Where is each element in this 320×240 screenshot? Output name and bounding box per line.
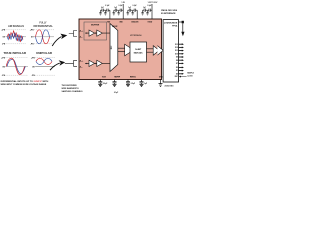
svg-text:DIFFERENTIAL: DIFFERENTIAL	[34, 25, 54, 28]
svg-text:DIFFERENTIAL INPUTS UP TO 2.8V: DIFFERENTIAL INPUTS UP TO 2.8VP-P WITH	[1, 80, 49, 83]
output pin D1	[176, 70, 184, 73]
MUX	[110, 24, 118, 72]
stub to node square	[179, 21, 182, 23]
swoosh arrow A2	[50, 63, 60, 70]
svg-text:0.1µF: 0.1µF	[147, 5, 151, 7]
output pin D0	[176, 73, 184, 76]
wire ch2 through buffers	[85, 62, 110, 64]
output pin D13	[175, 43, 184, 46]
plot P4 blue sine	[36, 58, 52, 64]
svg-text:-FS: -FS	[2, 44, 6, 46]
svg-text:FULLY: FULLY	[39, 23, 47, 25]
wire input fork channel 2	[65, 60, 77, 66]
interface box	[163, 20, 178, 82]
amp A1a	[89, 30, 95, 36]
svg-text:I/O INTERFACE: I/O INTERFACE	[161, 12, 176, 15]
svg-text:1.8V: 1.8V	[122, 2, 126, 4]
svg-text:2.2µF: 2.2µF	[131, 83, 135, 85]
bottom cap C8 REFLN	[140, 80, 148, 87]
input pin ENC (sample clock)	[175, 76, 187, 79]
svg-text:-FS: -FS	[31, 75, 35, 77]
bottom cap C5 VCM	[98, 80, 107, 87]
plot P2 grid lines	[34, 30, 54, 44]
amp A2a	[89, 60, 95, 66]
svg-text:BUFFER: BUFFER	[91, 25, 100, 27]
plot P2 red sine	[36, 30, 50, 44]
buffer box channel 1	[84, 22, 107, 40]
plot P3 red sine	[6, 58, 24, 74]
amp A1b	[97, 30, 103, 36]
svg-text:+FS: +FS	[31, 58, 35, 60]
svg-text:TRUE BIPOLAR: TRUE BIPOLAR	[4, 52, 27, 55]
plot P1 axis labels	[1, 30, 5, 46]
svg-text:0.1µF: 0.1µF	[105, 5, 109, 7]
svg-text:0V: 0V	[31, 37, 34, 39]
plot P2 axis labels	[30, 30, 34, 46]
plot P3 blue sine	[7, 59, 25, 73]
output pin D10	[175, 53, 184, 56]
wire ch1 through buffers	[85, 32, 110, 34]
svg-text:VCM: VCM	[102, 77, 106, 79]
svg-text:-FS: -FS	[2, 75, 6, 77]
ADC core box	[130, 42, 147, 62]
arrowhead ch1	[86, 32, 87, 34]
plot P1 grid lines	[6, 30, 26, 44]
plot P1 blue noisy waveform	[7, 33, 23, 42]
wire input fork channel 1	[69, 31, 77, 37]
svg-text:WIDE BANDWIDTH: WIDE BANDWIDTH	[62, 87, 80, 90]
svg-text:0.1µF: 0.1µF	[119, 5, 123, 7]
bus chevron 2	[157, 46, 163, 56]
svg-text:UNIPOLAR: UNIPOLAR	[36, 52, 52, 55]
svg-text:0V: 0V	[2, 66, 5, 68]
down arrowhead	[181, 32, 184, 37]
svg-text:SAMPLE: SAMPLE	[187, 71, 194, 74]
plot P3 axis labels	[1, 58, 5, 78]
svg-text:+FS: +FS	[30, 30, 34, 32]
svg-text:REFHP: REFHP	[114, 77, 121, 79]
svg-text:REFLN: REFLN	[130, 77, 136, 79]
output pin D9	[176, 56, 184, 59]
output pin D7	[176, 62, 184, 65]
supply rail OVDD with bypass caps C4a C4b	[141, 2, 158, 19]
svg-text:1µF: 1µF	[144, 83, 147, 85]
bottom cap C6	[113, 80, 119, 95]
svg-text:0.1µF: 0.1µF	[133, 5, 137, 7]
svg-text:0.1µF: 0.1µF	[114, 92, 118, 94]
down arrow wire	[182, 23, 184, 32]
svg-text:215814 TA01: 215814 TA01	[165, 85, 174, 88]
plot P1 red noisy waveform	[7, 31, 23, 43]
output pin D11	[175, 50, 184, 53]
output pin D8	[176, 59, 184, 62]
output pin D2	[176, 66, 184, 69]
svg-text:CMOS OR LVDS: CMOS OR LVDS	[161, 10, 178, 12]
swoosh arrow A1	[52, 37, 61, 47]
output pin D12	[175, 46, 184, 49]
arrowhead ch2	[86, 63, 87, 64]
svg-text:2.2µF: 2.2µF	[103, 83, 107, 85]
ground GND pin	[159, 80, 163, 87]
svg-text:+FS: +FS	[1, 30, 5, 32]
bus ADC to output	[147, 49, 155, 52]
svg-text:CLOCK: CLOCK	[187, 76, 193, 78]
bus MUX to ADC	[118, 48, 125, 51]
plot P4 grid lines	[35, 58, 55, 76]
svg-text:AM SIGNALS: AM SIGNALS	[8, 25, 25, 28]
svg-text:0V: 0V	[3, 37, 6, 39]
bottom cap C7 REFHP	[126, 80, 135, 87]
svg-text:LVDS/CMOS: LVDS/CMOS	[164, 22, 178, 24]
plot P3 grid lines	[5, 58, 28, 76]
svg-text:SAMPLING CHANNELS: SAMPLING CHANNELS	[62, 90, 84, 93]
plot P4 axis labels	[31, 58, 35, 78]
svg-text:+FS: +FS	[1, 58, 5, 60]
svg-text:-FS: -FS	[30, 44, 34, 46]
IC U1 LTC2158-14 body	[79, 19, 162, 80]
supply rail VDDLVDS with bypass caps C3a C3b	[126, 5, 137, 19]
plot P2 blue sine (inverted)	[36, 30, 50, 44]
amp A2b	[97, 60, 103, 66]
node square	[182, 21, 184, 24]
svg-text:TWO BUFFERED: TWO BUFFERED	[62, 85, 78, 87]
svg-text:WIDE INPUT COMMON MODE VOLTAGE: WIDE INPUT COMMON MODE VOLTAGE RANGE	[1, 83, 47, 86]
supply rail VDD1 with bypass caps C1a C1b	[99, 5, 110, 19]
plot P4 red sine	[36, 58, 52, 64]
supply rail VDD2 with bypass caps C2a C2b	[112, 2, 125, 19]
svg-text:1.2V TO 2.5V: 1.2V TO 2.5V	[148, 2, 159, 4]
svg-text:0V: 0V	[32, 66, 35, 68]
